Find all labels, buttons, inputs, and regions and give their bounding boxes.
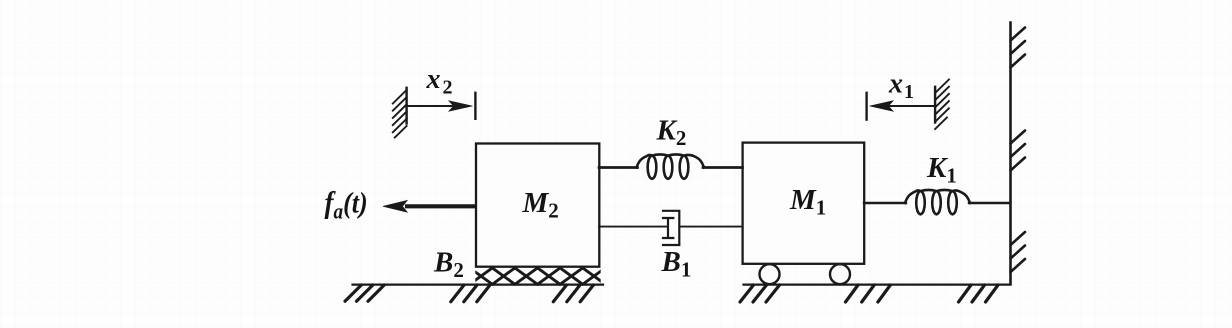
svg-text:x1: x1 — [888, 69, 914, 104]
ground hatch group under M1 right — [959, 285, 999, 302]
damper B1 cylinder bracket — [663, 211, 679, 245]
svg-text:K2: K2 — [656, 115, 687, 151]
wire M1 to spring K1 — [864, 202, 906, 204]
wire damper B1 to M1 — [679, 226, 742, 228]
wall hatch middle — [1011, 131, 1026, 171]
mass M1 box — [743, 143, 865, 264]
svg-text:B2: B2 — [433, 247, 464, 283]
wheel left of M1 — [760, 264, 780, 284]
x2 anchor hatching — [393, 90, 407, 138]
force arrow f_a(t) shaft — [407, 204, 475, 208]
svg-text:B1: B1 — [661, 246, 692, 282]
x2 arrow head — [449, 101, 473, 112]
svg-text:fa(t): fa(t) — [325, 186, 368, 224]
ground hatch group left — [345, 285, 384, 301]
spring K2 coil — [637, 154, 705, 178]
x2 arrow shaft — [408, 105, 453, 107]
wire M2 to damper B1 — [599, 226, 668, 228]
x1 anchor hatching — [935, 80, 949, 130]
friction pad X strip under M2 — [470, 268, 606, 284]
ground line under M2 — [353, 284, 604, 286]
x1 arrow head — [870, 101, 894, 112]
x2 reference anchor bar — [405, 88, 407, 124]
ground line under M1 — [744, 284, 1011, 286]
x1 arrow shaft — [888, 105, 934, 107]
svg-text:K1: K1 — [926, 152, 957, 188]
wire M2 to spring K2 — [599, 166, 638, 169]
wheel right of M1 — [830, 264, 850, 284]
ground hatch group under M2 right — [553, 285, 593, 302]
force arrow head — [383, 200, 407, 212]
mass M2 box — [476, 144, 599, 267]
wire spring K2 to M1 — [703, 166, 743, 169]
spring K1 coil — [905, 190, 970, 214]
wall — [1009, 23, 1012, 285]
x2 measuring tick — [474, 93, 476, 119]
svg-text:x2: x2 — [426, 64, 453, 99]
ground hatch group under M1 left — [740, 285, 780, 302]
x1 reference anchor bar — [934, 87, 936, 123]
wall hatch bottom — [1011, 232, 1026, 272]
ground hatch group mid-left — [451, 285, 490, 302]
damper B1 piston rod and plate — [663, 218, 673, 238]
x1 measuring tick — [865, 93, 867, 120]
wire spring K1 to wall — [969, 202, 1010, 204]
wall hatch top — [1011, 28, 1026, 68]
ground hatch group under M1 mid — [846, 285, 891, 302]
